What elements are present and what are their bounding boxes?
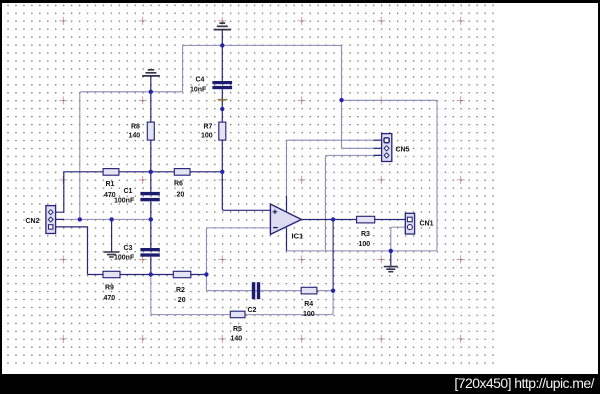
resistor R3 — [357, 216, 375, 223]
resistor R1 — [103, 169, 119, 176]
wire: CN2 pin2 stub — [56, 218, 64, 220]
capacitor C3 — [140, 248, 159, 257]
wire: CN5 pin1 to op-amp V+ — [287, 140, 382, 196]
wire: output node down to feedback row — [332, 220, 334, 291]
dotted grid — [7, 4, 494, 365]
wire: top row R1 R6 — [56, 172, 223, 212]
svg-text:IC1: IC1 — [292, 231, 304, 240]
wire: top-gnd node right run down to CN5 pin2 — [222, 45, 381, 148]
junction: R2 / inverting feedback node — [204, 272, 208, 276]
svg-text:CN2: CN2 — [26, 218, 40, 225]
svg-text:100: 100 — [359, 241, 371, 248]
svg-text:C4: C4 — [196, 77, 205, 84]
resistor R6 — [174, 169, 190, 176]
svg-text:470: 470 — [104, 295, 116, 302]
svg-text:R9: R9 — [105, 285, 114, 292]
wire: op-amp inverting input loop — [206, 228, 270, 290]
svg-text:CN5: CN5 — [396, 146, 410, 153]
resistor R4 — [301, 287, 317, 294]
CN2 pin 1 — [48, 210, 53, 215]
svg-text:R2: R2 — [176, 287, 185, 294]
CN2 pin 2 — [48, 217, 53, 222]
resistor R7 — [219, 122, 226, 140]
grid reference crosses — [59, 17, 465, 343]
svg-text:140: 140 — [231, 335, 243, 342]
ground CN1 — [384, 267, 398, 272]
junction: ground net top node — [220, 43, 224, 47]
wire: CN5 pin stubs — [374, 140, 382, 155]
svg-text:R8: R8 — [131, 124, 140, 131]
capacitor C1 — [140, 192, 159, 201]
wire: op-amp V+ pin — [286, 196, 288, 211]
junction: C1 / C3 node — [149, 217, 153, 221]
svg-text:C3: C3 — [124, 245, 133, 252]
net tick mark below C4 — [218, 99, 228, 100]
capacitor C2 — [252, 282, 260, 299]
svg-text:R3: R3 — [361, 231, 370, 238]
op-amp IC1 — [270, 204, 301, 234]
svg-text:R1: R1 — [106, 181, 115, 188]
junction: CN2 pin2 node — [78, 217, 82, 221]
connector CN2 — [46, 206, 56, 234]
connector CN1 — [405, 213, 414, 234]
wire: ground stem middle row — [111, 219, 113, 251]
svg-text:R6: R6 — [174, 181, 183, 188]
wire: right outer loop to ground row — [287, 100, 438, 251]
junction: R1 / R6 / C1 node — [149, 170, 153, 174]
svg-text:R4: R4 — [304, 301, 313, 308]
wire: CN5 pin3 down to ground row — [325, 155, 381, 251]
IC1 non-inverting input mark — [273, 210, 278, 215]
wire: feedback row C2/R4 — [206, 290, 333, 292]
svg-text:10nF: 10nF — [190, 87, 207, 94]
resistor R2 — [173, 271, 191, 277]
IC1 inverting input mark — [273, 227, 278, 229]
CN1 pin 1 — [407, 217, 412, 222]
ground top — [214, 23, 231, 30]
resistor R5 — [230, 311, 245, 318]
junction: ground loop branch node — [339, 98, 343, 102]
svg-text:C1: C1 — [124, 188, 133, 195]
svg-text:20: 20 — [177, 192, 185, 199]
svg-text:C2: C2 — [248, 307, 257, 314]
svg-text:100nF: 100nF — [114, 197, 135, 204]
wire: top ground stem to C4 — [221, 30, 223, 82]
junction: C3 / R9 / R2 node — [149, 272, 153, 276]
junction: middle row ground stub node — [109, 217, 113, 221]
svg-text:20: 20 — [178, 297, 186, 304]
wire: middle row — [56, 218, 151, 220]
svg-text:100: 100 — [201, 133, 213, 140]
wire: top-gnd node left loop down to middle row — [80, 45, 223, 219]
wire: op-amp V- pin — [286, 228, 288, 251]
wire: output row to CN1 — [301, 219, 405, 221]
wire: C4 bottom to R7 — [221, 89, 223, 122]
junction: CN1 ground node — [389, 249, 393, 253]
junction: R6 / R7 / op-amp input node — [220, 170, 224, 174]
svg-text:CN1: CN1 — [420, 220, 434, 227]
svg-text:470: 470 — [104, 192, 116, 199]
connector CN5 — [382, 134, 392, 162]
svg-text:R5: R5 — [233, 326, 242, 333]
junction: R4 / R5 feedback node — [331, 289, 335, 293]
svg-text:100: 100 — [303, 311, 315, 318]
capacitor C4 — [212, 81, 232, 89]
wire: ground stem under CN1 — [390, 251, 392, 266]
junction: left ground / R8 node — [149, 90, 153, 94]
ground left — [142, 70, 160, 76]
wire: left ground stem through R8 C1 C3 — [150, 76, 152, 274]
CN2 pin 3 — [49, 225, 53, 229]
svg-text:R7: R7 — [204, 124, 213, 131]
wire: bottom row R9 R2 — [88, 274, 207, 276]
junction: C4 / R7 node — [220, 107, 224, 111]
ground middle — [104, 252, 119, 257]
svg-text:100nF: 100nF — [114, 255, 135, 262]
CN5 pin 3 — [384, 153, 389, 158]
CN1 pin 2 — [407, 225, 412, 230]
svg-text:140: 140 — [129, 133, 141, 140]
wire: CN2 pin3 to bottom row — [56, 227, 88, 275]
wire: R7 bottom to row — [221, 140, 223, 172]
wire: CN1 pin2 to ground node — [391, 227, 406, 251]
CN5 pin 1 — [384, 138, 389, 143]
resistor R8 — [147, 122, 154, 140]
junction: op-amp output node — [331, 217, 335, 221]
wire: node to op-amp non-inverting input — [222, 172, 270, 211]
wire: R5 branch — [151, 275, 333, 315]
CN5 pin 2 — [384, 146, 389, 151]
resistor R9 — [103, 271, 120, 277]
